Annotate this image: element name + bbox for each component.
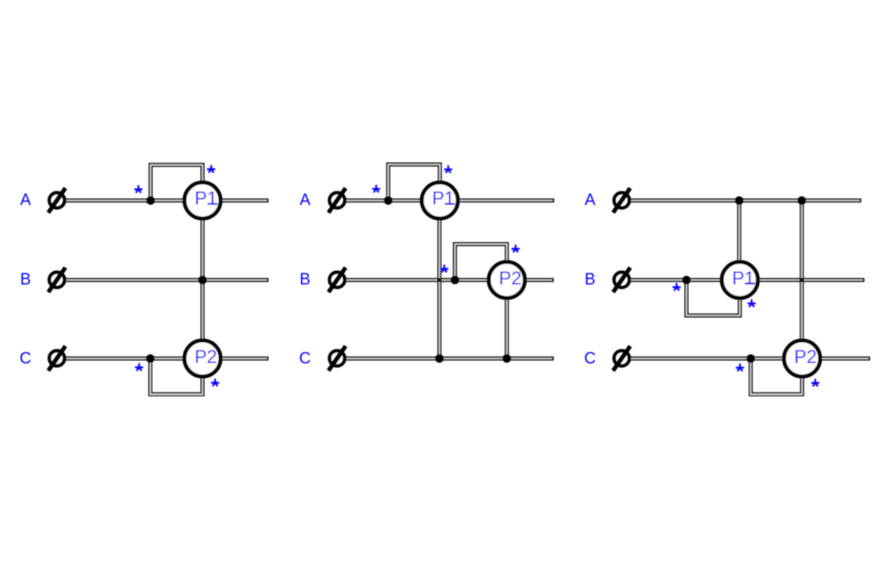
- source Ø phase B (diagram 2): [329, 268, 346, 293]
- junction dot: line B tap (diagram 3): [682, 276, 691, 285]
- wire: voltage-coil loop of P1 (diagram 2): [388, 165, 440, 201]
- junction dot: line C tap (diagram 3): [746, 354, 755, 363]
- wire A2 (phase A line, diagram 2): [346, 199, 555, 203]
- svg-text:A: A: [585, 191, 596, 209]
- source Ø phase A (diagram 1): [48, 188, 65, 213]
- wire A3 (phase A line, diagram 3): [630, 199, 861, 203]
- wattmeter P1 (diagram 3): [722, 262, 758, 298]
- svg-text:P2: P2: [794, 346, 817, 367]
- polarity mark * at C tap (diagram 3): [737, 364, 744, 370]
- wire: vertical P2-to-line-C link (diagram 2): [505, 280, 509, 359]
- source Ø phase B (diagram 3): [613, 268, 630, 293]
- wattmeter P1 (diagram 1): [184, 182, 220, 218]
- svg-text:C: C: [299, 350, 311, 368]
- junction dot: P1 link on line C (diagram 2): [435, 354, 444, 363]
- junction dot: line B link (diagram 1): [198, 276, 207, 285]
- junction dot: line A tap (diagram 2): [384, 196, 393, 205]
- wire: vertical line-A-to-P1 link (diagram 3): [737, 201, 741, 281]
- crossing patch (vertical link over line B, no connection, diagram 2): [437, 278, 441, 282]
- wire: vertical P1-to-P2 link (diagram 1): [201, 201, 205, 359]
- wire: voltage-coil loop of P1 (diagram 3): [686, 280, 739, 316]
- polarity mark * at P2 voltage terminal (diagram 3): [812, 380, 819, 386]
- wattmeter P2 (diagram 3): [784, 340, 820, 376]
- polarity mark * at B tap (diagram 3): [673, 284, 680, 290]
- wire: voltage-coil loop of P2 (diagram 1): [150, 359, 202, 395]
- polarity mark * at P1 voltage terminal (diagram 2): [445, 166, 452, 172]
- junction dot: line A second tap (diagram 3): [798, 196, 807, 205]
- svg-text:P1: P1: [732, 267, 755, 288]
- source Ø phase C (diagram 2): [329, 346, 346, 371]
- wattmeter P1 (diagram 2): [422, 182, 458, 218]
- svg-text:B: B: [585, 271, 596, 289]
- polarity mark * at P1 voltage terminal (diagram 1): [208, 166, 215, 172]
- polarity mark * at P2 voltage terminal (diagram 1): [212, 379, 219, 385]
- source Ø phase C (diagram 3): [613, 346, 630, 371]
- polarity mark * at A tap (diagram 2): [373, 186, 380, 192]
- wire C2 (phase C line, diagram 2): [346, 357, 554, 361]
- wire C3 (phase C line, diagram 3): [630, 357, 870, 361]
- source Ø phase A (diagram 3): [613, 188, 630, 213]
- wire: voltage-coil loop of P1 (diagram 1): [151, 165, 203, 201]
- junction dot: P2 link on line C (diagram 2): [503, 354, 512, 363]
- wire B3 (phase B line, diagram 3): [630, 278, 864, 282]
- svg-text:B: B: [300, 271, 311, 289]
- wire: vertical line-A-to-P2 link (diagram 3): [800, 201, 804, 359]
- wire B2 (phase B line, diagram 2): [346, 278, 554, 282]
- source Ø phase A (diagram 2): [329, 188, 346, 213]
- polarity mark * at P1 voltage terminal (diagram 3): [748, 300, 755, 306]
- junction dot: line A tap (diagram 1): [146, 196, 155, 205]
- polarity mark * at A tap (diagram 1): [135, 186, 142, 192]
- svg-text:A: A: [300, 191, 311, 209]
- wire C1 (phase C line, diagram 1): [66, 357, 269, 361]
- svg-text:C: C: [584, 350, 596, 368]
- junction dot: line B tap (diagram 2): [451, 276, 460, 285]
- svg-text:P2: P2: [194, 346, 217, 367]
- svg-text:P1: P1: [432, 188, 455, 209]
- svg-text:C: C: [20, 350, 32, 368]
- wire B1 (phase B line, diagram 1): [66, 278, 269, 282]
- source Ø phase B (diagram 1): [48, 268, 65, 293]
- svg-text:P1: P1: [195, 188, 218, 209]
- wire: vertical P1-to-line-C link (diagram 2): [437, 201, 441, 359]
- crossing patch (vertical link over line B, no connection, diagram 3): [800, 278, 804, 282]
- svg-text:B: B: [20, 271, 31, 289]
- wattmeter P2 (diagram 2): [489, 262, 525, 298]
- polarity mark * at B tap (diagram 2): [441, 265, 448, 271]
- polarity mark * at C tap (diagram 1): [136, 364, 143, 370]
- polarity mark * at P2 voltage terminal (diagram 2): [512, 245, 519, 251]
- junction dot: line A first tap (diagram 3): [735, 196, 744, 205]
- wire: voltage-coil loop of P2 (diagram 2): [455, 244, 507, 280]
- wire A1 (phase A line, diagram 1): [66, 199, 269, 203]
- svg-text:A: A: [20, 191, 31, 209]
- source Ø phase C (diagram 1): [48, 346, 65, 371]
- wattmeter P2 (diagram 1): [184, 340, 220, 376]
- junction dot: line C tap (diagram 1): [146, 354, 155, 363]
- svg-text:P2: P2: [499, 267, 522, 288]
- wire: voltage-coil loop of P2 (diagram 3): [751, 359, 802, 395]
